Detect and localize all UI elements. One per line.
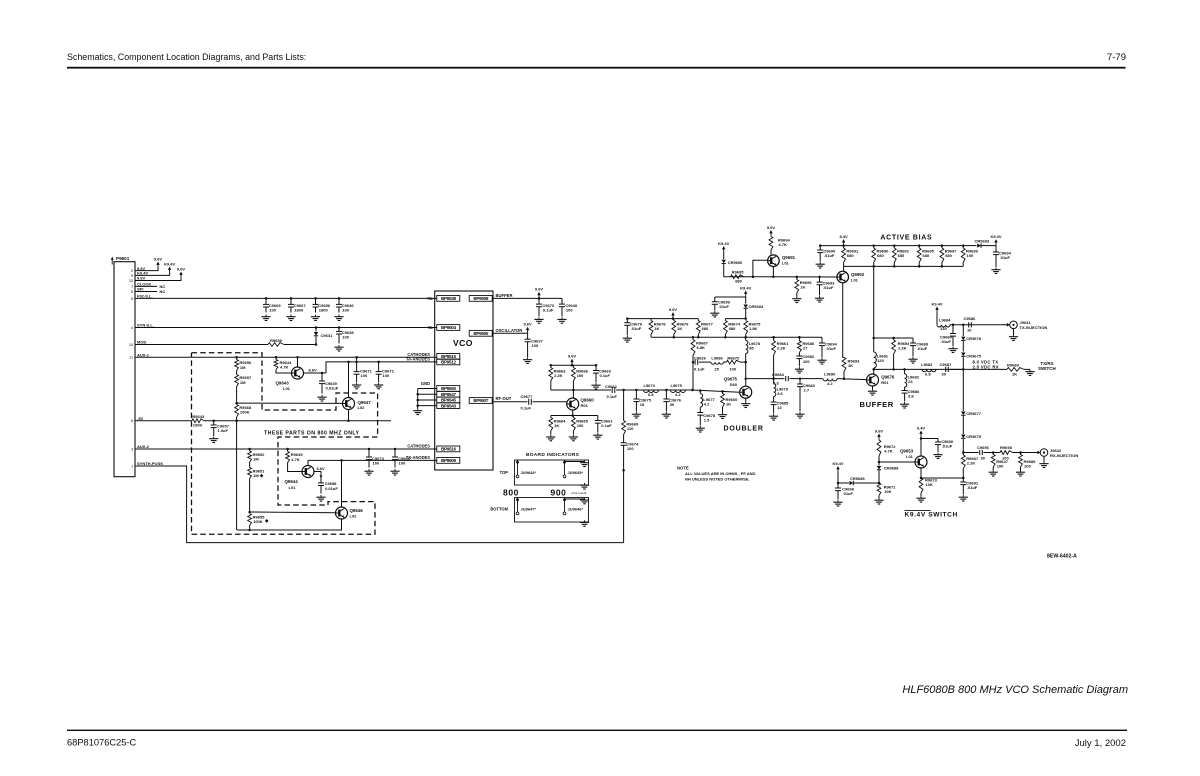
svg-text:Q9643: Q9643 (276, 381, 290, 386)
svg-text:RF-OUT: RF-OUT (496, 396, 512, 401)
svg-text:L02: L02 (358, 405, 366, 410)
svg-text:1M: 1M (253, 473, 259, 478)
power 9.6V arrow (pin2) (157, 264, 159, 268)
ground bottom box lower (584, 520, 586, 522)
svg-text:0.01uF: 0.01uF (326, 385, 339, 390)
resistor R9665 (572, 416, 574, 418)
capacitor C9640 (561, 298, 563, 304)
svg-text:30: 30 (942, 371, 947, 376)
svg-text:.01uF: .01uF (967, 485, 978, 490)
power K9.4V right of CR9693 (995, 242, 997, 246)
wire Q9660 emitter rail (572, 410, 574, 415)
svg-text:R01: R01 (881, 380, 889, 385)
svg-text:100: 100 (967, 253, 974, 258)
transistor Q9691 (768, 255, 780, 267)
svg-text:AUX-1: AUX-1 (137, 353, 150, 358)
svg-text:CR9690: CR9690 (728, 260, 743, 265)
resistor R9670 (723, 361, 726, 363)
ground Q9675 emitter (745, 398, 747, 401)
port BP9504 (437, 325, 460, 331)
resistor R9661 (773, 337, 775, 340)
svg-text:2.2K: 2.2K (554, 373, 563, 378)
svg-text:-5V: -5V (137, 416, 144, 421)
svg-text:100: 100 (383, 373, 390, 378)
svg-text:C9662: C9662 (605, 384, 618, 389)
svg-text:F02-S.L.: F02-S.L. (137, 294, 153, 299)
capacitor C9693 (819, 277, 821, 282)
svg-text:1800: 1800 (319, 307, 329, 312)
resistor R9687 (962, 453, 964, 456)
transistor Q9646 (336, 507, 348, 519)
svg-text:.01uF: .01uF (942, 444, 953, 449)
svg-text:100: 100 (729, 366, 736, 371)
svg-text:680: 680 (877, 253, 884, 258)
svg-text:C9631: C9631 (321, 333, 334, 338)
svg-text:100K: 100K (240, 410, 250, 415)
wire -5V line (135, 420, 192, 422)
svg-text:1M: 1M (240, 365, 246, 370)
resistor R9677 (697, 319, 699, 321)
inductor L9673 (644, 390, 659, 393)
wire doubler output (746, 378, 785, 380)
resistor R9679 (673, 319, 675, 321)
svg-text:.01uF: .01uF (826, 346, 837, 351)
svg-text:BP9509: BP9509 (441, 458, 457, 463)
svg-text:.01uF: .01uF (941, 339, 952, 344)
wire TX-ANODES lower (308, 459, 437, 461)
svg-text:23: 23 (908, 379, 913, 384)
svg-text:4: 4 (131, 325, 134, 330)
wire TX injection (950, 324, 1009, 326)
wire active bias rail top (820, 245, 963, 247)
power 9.4V switch (920, 433, 922, 437)
svg-text:25: 25 (714, 366, 719, 371)
wire doubler bias rail1 (627, 318, 698, 320)
resistor R9647 (992, 453, 994, 455)
svg-text:(Not Used): (Not Used) (572, 491, 587, 495)
port BP9509 (437, 458, 460, 464)
svg-text:Q9675: Q9675 (724, 377, 738, 382)
svg-text:.01uF: .01uF (631, 326, 642, 331)
svg-text:900: 900 (551, 488, 567, 498)
svg-text:68P81076C25-C: 68P81076C25-C (67, 738, 137, 748)
svg-text:CATHODES: CATHODES (407, 444, 430, 449)
wire to Q9676 base (837, 379, 867, 380)
port BP9543 (437, 403, 460, 409)
wire OSCILLATOR output (492, 332, 527, 334)
wire AUX-2 CATHODES lower bus (135, 448, 437, 450)
svg-text:2.2K: 2.2K (898, 345, 907, 350)
svg-text:R9658: R9658 (270, 338, 283, 343)
svg-text:CR9675: CR9675 (966, 354, 981, 359)
svg-text:SWITCH: SWITCH (1038, 366, 1056, 371)
svg-text:1K: 1K (848, 363, 853, 368)
svg-text:.01uF: .01uF (823, 285, 834, 290)
svg-text:.01uF: .01uF (843, 491, 854, 496)
capacitor C9678 (699, 407, 701, 412)
capacitor C9694 bias (821, 337, 823, 343)
resistor R9651 (249, 462, 251, 468)
svg-text:27: 27 (803, 345, 808, 350)
svg-text:680: 680 (847, 253, 854, 258)
capacitor C9656 (314, 297, 317, 300)
capacitor C9658 (320, 472, 322, 483)
inductor L9675 (671, 390, 686, 393)
wire Q9646 base (250, 511, 336, 514)
svg-text:100: 100 (342, 307, 349, 312)
power K9.4V at CR9690 (723, 249, 725, 253)
svg-text:680: 680 (735, 279, 742, 284)
svg-text:2.2K: 2.2K (967, 460, 976, 465)
wire TA-ANODES upper (326, 362, 437, 373)
capacitor C9669 (265, 297, 268, 300)
svg-text:100: 100 (399, 460, 406, 465)
capacitor C9673 (368, 448, 371, 451)
inductor L9686 (711, 362, 724, 364)
svg-text:9.6V: 9.6V (669, 307, 678, 312)
transistor Q9675 doubler (740, 386, 752, 398)
svg-text:C9677: C9677 (521, 394, 534, 399)
svg-text:9.6V: 9.6V (154, 256, 163, 261)
power 9.6V arrow (pin12) (180, 274, 182, 278)
svg-text:L9675: L9675 (671, 383, 683, 388)
wire buffer collector column (873, 266, 875, 338)
svg-text:100: 100 (577, 373, 584, 378)
svg-text:.01uF: .01uF (824, 253, 835, 258)
svg-text:CR9678: CR9678 (966, 336, 981, 341)
wire AUX-1 CATHODES bus (135, 356, 437, 358)
resistor R9694 (769, 237, 773, 251)
svg-text:8: 8 (131, 418, 133, 423)
inductor L9678 (745, 337, 747, 340)
wire buffer output (874, 368, 964, 370)
svg-text:100: 100 (1024, 464, 1031, 469)
svg-text:0.1uF: 0.1uF (694, 366, 705, 371)
svg-text:3.6: 3.6 (777, 391, 783, 396)
resistor R9652 (248, 448, 251, 451)
inductor L9690 (823, 379, 837, 381)
svg-text:2.2K: 2.2K (777, 345, 786, 350)
wire pin7 CLOCK NC (135, 285, 157, 287)
resistor R9673 (919, 478, 923, 493)
svg-text:L01: L01 (289, 485, 297, 490)
svg-text:800: 800 (503, 488, 519, 498)
svg-text:6.8: 6.8 (925, 371, 931, 376)
svg-text:K9.4V: K9.4V (832, 461, 843, 466)
svg-text:TOP: TOP (500, 470, 509, 475)
svg-text:2.5 VDC RX: 2.5 VDC RX (973, 364, 999, 369)
port BP9508 (469, 296, 492, 302)
resistor R9694 buffer (893, 338, 895, 340)
capacitor C9677 series (528, 399, 530, 405)
svg-text:9.6V: 9.6V (875, 428, 884, 433)
power K9.4V doubler (745, 293, 747, 297)
resistor R9686 (798, 337, 800, 341)
capacitor C9694 right (995, 246, 997, 252)
power 9.6V switch (878, 436, 880, 440)
resistor R9655 (248, 514, 252, 526)
svg-text:100: 100 (566, 308, 573, 313)
svg-text:100: 100 (627, 446, 634, 451)
resistor R9667 (692, 337, 694, 339)
svg-text:100: 100 (997, 464, 1004, 469)
board indicators top box (515, 460, 589, 485)
svg-text:1M: 1M (240, 380, 246, 385)
power 8.4V active bias (843, 242, 845, 246)
svg-text:JU9646*: JU9646* (568, 506, 584, 511)
wire Q9692 emitter down (842, 283, 844, 358)
resistor R9658 (268, 343, 284, 347)
resistor R9643 (192, 419, 204, 423)
wires GND ports (418, 388, 437, 390)
svg-text:L02: L02 (350, 514, 358, 519)
svg-text:AUX-2: AUX-2 (137, 444, 150, 449)
capacitor C9661 (597, 416, 599, 421)
svg-text:BP9512: BP9512 (441, 360, 457, 365)
port BP9512 (437, 359, 460, 365)
ground Q9676 emitter (872, 386, 874, 389)
wire F02-S.L. +5L bus (135, 297, 437, 299)
svg-text:6.8K: 6.8K (697, 345, 706, 350)
resistor R9698 bias (918, 246, 920, 248)
wire MOD line (135, 344, 268, 346)
transistor Q9643 (292, 367, 304, 379)
svg-text:BP9508: BP9508 (473, 296, 489, 301)
capacitor C9679 (626, 317, 629, 320)
port BP9545 (437, 397, 460, 403)
svg-text:0.01uF: 0.01uF (325, 486, 338, 491)
svg-text:K9.4V: K9.4V (931, 301, 942, 306)
resistor R9649 (286, 448, 289, 451)
svg-text:THESE PARTS ON 800 MHZ ONLY: THESE PARTS ON 800 MHZ ONLY (264, 431, 360, 437)
svg-text:9.6V: 9.6V (137, 276, 146, 281)
jumper JU9647 (517, 498, 519, 513)
wire doubler bias rail2 (651, 336, 822, 338)
power 9.6V at Q9660 (571, 362, 573, 366)
wire SYNTH-POSK (135, 466, 624, 543)
svg-text:L9673: L9673 (644, 383, 656, 388)
capacitor C9674 (623, 435, 625, 443)
resistor R9696 (796, 277, 798, 280)
svg-text:BP9507: BP9507 (473, 398, 489, 403)
diode CR9688 (878, 462, 880, 466)
capacitor C9672 (377, 361, 380, 364)
jumper JU9644 (517, 460, 519, 475)
svg-text:BP9515: BP9515 (441, 354, 457, 359)
svg-text:L9686: L9686 (711, 355, 723, 360)
svg-text:680: 680 (945, 253, 952, 258)
svg-text:Q9660: Q9660 (581, 398, 595, 403)
svg-text:SYNTH-POSK: SYNTH-POSK (137, 461, 163, 466)
capacitor C9670 (538, 298, 540, 304)
svg-text:VCO: VCO (453, 338, 473, 348)
wire Q9643 collector (297, 357, 299, 367)
svg-text:R9683: R9683 (1007, 362, 1020, 367)
resistor R9699 (962, 246, 964, 248)
ground top box lower (584, 483, 586, 485)
svg-text:4.7K: 4.7K (291, 457, 300, 462)
svg-text:4.7K: 4.7K (280, 364, 289, 369)
power 9.6V at buffer line (538, 297, 541, 300)
port BP9515 (437, 354, 460, 360)
svg-text:BP9538: BP9538 (441, 296, 457, 301)
inductor L9679 (773, 379, 775, 384)
resistor R9697 (941, 246, 943, 248)
wire pin12 to 9.6V (135, 278, 181, 281)
svg-text:4.7K: 4.7K (884, 449, 893, 454)
wire jumper JU9645 to ground (565, 461, 585, 463)
svg-text:BP9550: BP9550 (441, 386, 457, 391)
capacitor C9680 (952, 325, 954, 334)
svg-text:30: 30 (670, 402, 675, 407)
svg-text:JU9645*: JU9645* (568, 470, 584, 475)
svg-text:Q9691: Q9691 (782, 255, 796, 260)
transistor Q9647 (343, 398, 355, 410)
wire Q9644 collector (307, 460, 309, 465)
svg-text:1M: 1M (253, 456, 259, 461)
capacitor C9663 (595, 365, 597, 370)
wire rail1b (725, 318, 745, 320)
capacitor C9667 (290, 297, 293, 300)
svg-text:K9.4V: K9.4V (718, 241, 729, 246)
svg-text:R9670: R9670 (727, 355, 740, 360)
svg-text:+5L: +5L (426, 296, 434, 301)
svg-text:4.2: 4.2 (704, 401, 710, 406)
svg-text:-5L: -5L (427, 325, 434, 330)
resistor R9671 (877, 483, 881, 496)
svg-text:BP9543: BP9543 (441, 403, 457, 408)
svg-text:Schematics, Component Location: Schematics, Component Location Diagrams,… (67, 52, 306, 62)
svg-text:C9626: C9626 (694, 355, 707, 360)
svg-text:130: 130 (940, 326, 947, 331)
capacitor C9691 (962, 478, 964, 482)
svg-text:2.7: 2.7 (804, 388, 810, 393)
svg-text:BP9547: BP9547 (441, 392, 457, 397)
jumper JU9646 (564, 498, 566, 513)
transistor Q9644 (302, 466, 314, 478)
wire R9657 to node (236, 387, 238, 404)
capacitor C9686 shunt (904, 387, 906, 390)
wire buffer stub rail (874, 337, 913, 339)
svg-text:CR9693: CR9693 (975, 238, 990, 243)
svg-text:680: 680 (923, 253, 930, 258)
svg-text:TA-ANODES: TA-ANODES (406, 357, 430, 362)
svg-text:1800: 1800 (294, 307, 304, 312)
port BP9516 (437, 446, 460, 452)
svg-text:11: 11 (129, 355, 133, 360)
capacitor C9676 (665, 390, 667, 399)
svg-text:680: 680 (898, 253, 905, 258)
svg-text:Q9692: Q9692 (851, 272, 865, 277)
connector J9642 RX-INJECTION (1040, 449, 1048, 457)
svg-text:120: 120 (877, 358, 884, 363)
capacitor C9690 (819, 246, 821, 250)
svg-text:NOTE: NOTE (677, 466, 689, 471)
svg-text:HLF6080B 800 MHz VCO Schematic: HLF6080B 800 MHz VCO Schematic Diagram (902, 684, 1128, 696)
svg-text:1.0uF: 1.0uF (218, 428, 229, 433)
svg-text:100: 100 (342, 335, 349, 340)
svg-text:1K: 1K (800, 284, 805, 289)
svg-text:L01: L01 (906, 454, 914, 459)
diode CR9684 (745, 297, 747, 304)
wire Q9647 collector (348, 362, 350, 398)
svg-text:100K: 100K (193, 423, 203, 428)
diode CR9675 (961, 353, 965, 357)
diode CR9690 (723, 253, 725, 260)
ground VCO gnd ports (417, 409, 419, 411)
diode CR9677 (961, 412, 965, 416)
svg-text:85: 85 (749, 345, 754, 350)
svg-text:1: 1 (131, 463, 133, 468)
svg-text:10K: 10K (926, 482, 933, 487)
capacitor C9699 (715, 296, 746, 298)
wire R9651 to Q9646 base node (249, 479, 251, 513)
svg-text:9.6V: 9.6V (177, 266, 186, 271)
resistor R9689 (1019, 451, 1022, 454)
resistor R9672 (877, 440, 881, 456)
wire Q9691 base link (753, 260, 768, 277)
wire -5V down column (236, 421, 238, 530)
wire Q9691 emitter link (772, 267, 774, 277)
wire CR chain down (962, 369, 964, 411)
capacitor C9636 (338, 297, 341, 300)
capacitor C9689 (921, 438, 938, 440)
svg-text:C9696: C9696 (977, 445, 990, 450)
transistor Q9676 (867, 374, 879, 386)
svg-text:BOTTOM: BOTTOM (490, 506, 508, 511)
resistor R9695 series (731, 275, 744, 279)
port BP9538 (437, 296, 460, 302)
capacitor C9662 series (611, 387, 613, 393)
svg-text:10: 10 (129, 342, 134, 347)
svg-text:9.6V: 9.6V (535, 287, 544, 292)
inductor L9681 (873, 338, 875, 352)
svg-text:BOARD INDICATORS: BOARD INDICATORS (526, 452, 580, 458)
ground J9641 (1013, 329, 1015, 335)
inductor L9684 (936, 313, 938, 325)
svg-text:8.6V: 8.6V (309, 367, 318, 372)
wire Q9644 emitter node (314, 471, 321, 473)
svg-text:SYN-S.L.: SYN-S.L. (137, 323, 154, 328)
wire pin6 SPI NC (135, 291, 157, 293)
varactor C9631 (315, 326, 318, 329)
svg-text:L01: L01 (283, 386, 291, 391)
wire Q9643 emitter node 8.6V (304, 372, 327, 374)
svg-text:1.8K: 1.8K (749, 326, 758, 331)
svg-text:L9683: L9683 (921, 362, 933, 367)
capacitor C9686 series tx (968, 322, 970, 327)
svg-text:BP9504: BP9504 (441, 325, 457, 330)
capacitor C9626 series (694, 360, 696, 365)
svg-text:9.6V: 9.6V (568, 354, 577, 359)
svg-text:K9.4V SWITCH: K9.4V SWITCH (905, 512, 958, 519)
svg-text:ACTIVE BIAS: ACTIVE BIAS (880, 234, 932, 241)
svg-text:0.1uF: 0.1uF (521, 406, 532, 411)
resistor R9669 (623, 390, 625, 421)
svg-text:8.4V: 8.4V (839, 234, 848, 239)
connector P9601 (114, 262, 135, 477)
svg-text:BP9516: BP9516 (441, 447, 457, 452)
wire Q9660 collector rail (551, 389, 611, 391)
svg-text:R9695: R9695 (732, 269, 745, 274)
capacitor C9657 (212, 420, 215, 423)
capacitor C9627 (527, 333, 529, 339)
ground J9642 (1043, 456, 1045, 461)
svg-text:1.5: 1.5 (704, 418, 710, 423)
svg-text:1K: 1K (654, 326, 659, 331)
wire Q9646 collector (341, 460, 343, 507)
svg-text:Q9646: Q9646 (350, 508, 364, 513)
